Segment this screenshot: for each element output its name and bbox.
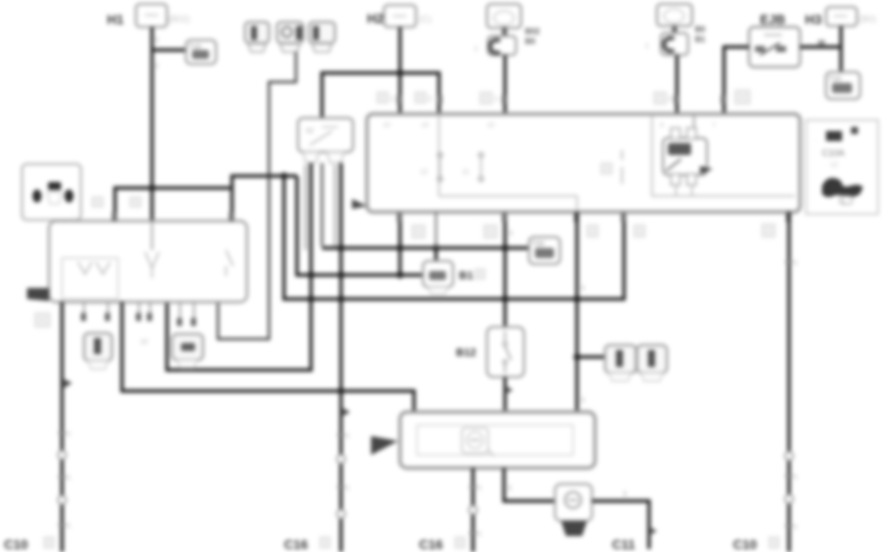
svg-text:(B02): (B02) <box>168 14 190 24</box>
wire relay A2 right pin down to ground C16 <box>337 163 350 552</box>
wire B12 down to pump box A13 <box>505 377 513 412</box>
lamp H3 <box>826 7 857 26</box>
pump motor M <box>555 484 592 536</box>
M1 pointer arrow <box>352 199 367 209</box>
pin marks on M1 bottom edge <box>397 213 791 222</box>
junction box EJB <box>749 27 800 67</box>
svg-text:.: . <box>72 210 74 217</box>
svg-text:1: 1 <box>67 475 71 482</box>
M1 inner zone left <box>439 116 577 212</box>
sensor B02 (brake fluid) <box>474 4 540 55</box>
wire M1 inner feed x440 to connector B1 <box>435 212 437 261</box>
indicator lamp 2 in M1 <box>462 153 483 181</box>
wire A13 to ground C16 <box>469 468 482 552</box>
svg-text:20: 20 <box>383 122 391 129</box>
wire H3 down to connector T2 <box>839 26 842 72</box>
relay A2 (hazard module) <box>298 118 353 163</box>
svg-text:C16: C16 <box>419 537 443 552</box>
wire EJB left to M1 <box>724 47 749 114</box>
wire relay A2 mid pin to bus y248 <box>306 163 530 250</box>
svg-text:H1: H1 <box>107 12 124 27</box>
svg-text:(C): (C) <box>419 14 432 24</box>
svg-text:H3: H3 <box>805 12 822 27</box>
svg-text:19: 19 <box>421 122 429 129</box>
svg-text:C10: C10 <box>733 537 757 552</box>
M1 inner zone right <box>652 116 795 196</box>
H2 connector ref text <box>419 14 432 24</box>
ground label C10 left <box>4 537 54 552</box>
node junction y176 branch <box>281 173 288 180</box>
svg-text:1: 1 <box>794 260 798 267</box>
P pointer arrow <box>27 288 49 301</box>
wire relay A2 left pin down to U-turn <box>167 163 311 370</box>
wire ignition bus upper (y176/y188 to switch P) <box>115 176 297 221</box>
svg-text:12: 12 <box>420 169 428 176</box>
P bottom pin stubs <box>84 302 194 318</box>
svg-text:1: 1 <box>155 37 159 44</box>
svg-text:1: 1 <box>478 485 482 492</box>
fuse F2 <box>277 22 303 52</box>
junction box EJB label <box>760 12 785 27</box>
node B12 label <box>456 347 476 359</box>
node B1 label <box>459 269 485 282</box>
wire relay U1 bottom stubs <box>676 185 692 196</box>
svg-text:1: 1 <box>509 230 513 237</box>
svg-text:1: 1 <box>67 523 71 530</box>
connector B1 <box>423 261 453 294</box>
sensor B03 (right, level) <box>645 4 706 55</box>
svg-text:H2: H2 <box>367 11 384 26</box>
warning lamp cluster 2 <box>637 345 667 381</box>
pin marks on M1 top edge <box>397 95 726 104</box>
connector T1 <box>186 40 216 64</box>
wire sensor B02 down to M1 and B12 <box>505 55 513 327</box>
ground label C11 <box>612 537 635 552</box>
connector label squares above P <box>92 197 141 207</box>
connector label square left of P <box>35 313 50 327</box>
svg-text:11: 11 <box>462 169 469 176</box>
svg-text:1: 1 <box>346 485 350 492</box>
connector label square near EJB <box>735 90 750 104</box>
wire M1 right pin down to ground C10 <box>785 212 798 552</box>
svg-text:1: 1 <box>155 63 159 70</box>
svg-text:B0: B0 <box>525 37 536 46</box>
svg-text:1: 1 <box>346 433 350 440</box>
wire P pin to pump box A13 (bottom rail) <box>122 302 414 412</box>
svg-text:.: . <box>814 135 816 142</box>
lamp H2 label <box>367 11 384 26</box>
ground label C16 mid <box>419 537 465 552</box>
wire P pin to ground C10 <box>58 302 72 552</box>
svg-text:1: 1 <box>478 531 482 538</box>
wire pump to ground C11 <box>592 491 657 549</box>
svg-text:T10: T10 <box>829 76 841 83</box>
wire M1 x577 down to A13 <box>577 212 585 412</box>
node junctions on wire x341 <box>338 245 345 395</box>
svg-text:1: 1 <box>390 96 394 103</box>
svg-text:1: 1 <box>67 431 71 438</box>
svg-text:C10A: C10A <box>822 148 845 158</box>
lamp H1 <box>136 4 167 27</box>
svg-text:52: 52 <box>306 128 314 135</box>
gauge sender inside A13 <box>462 428 494 456</box>
fuse F4 below P <box>84 333 112 369</box>
svg-text:.: . <box>25 210 27 217</box>
wire branch to warning lamps <box>577 355 605 358</box>
wire H1 down to switch P <box>152 27 159 221</box>
wire H1 branch to connector T1 <box>152 48 187 51</box>
M1 mid pin link <box>601 150 622 184</box>
connector T2 <box>826 72 860 99</box>
svg-text:EJB: EJB <box>760 12 785 27</box>
fuel pump unit A13 <box>400 412 595 468</box>
node junction x577 lamp branch <box>574 354 581 361</box>
svg-text:1: 1 <box>794 474 798 481</box>
svg-text:T10: T10 <box>189 44 201 51</box>
svg-text:1: 1 <box>581 397 585 404</box>
warning lamp cluster 1 <box>605 345 636 381</box>
svg-text:1: 1 <box>645 43 649 50</box>
lamp H3 label <box>805 12 822 27</box>
ignition switch B <box>22 164 81 220</box>
svg-text:1: 1 <box>494 96 498 103</box>
pin marks on P top edge <box>112 212 234 221</box>
wire bus y73 <box>322 73 439 118</box>
H3 connector ref text <box>859 14 876 24</box>
P bottom pin tips <box>81 313 196 346</box>
svg-text:T20: T20 <box>532 241 544 248</box>
H1 connector ref text <box>168 14 190 24</box>
wire bus y299 (to cluster M1) <box>284 176 624 299</box>
connector T20 <box>529 237 560 264</box>
connector label squares below M1 <box>412 224 775 238</box>
wire A13 to pump motor <box>504 468 555 501</box>
svg-text:1: 1 <box>794 524 798 531</box>
wire relay U1 right pin feed <box>693 116 695 128</box>
svg-text:B1: B1 <box>459 270 473 282</box>
node junctions bus <box>149 185 581 303</box>
A13 pointer arrow <box>371 436 398 455</box>
wire fuse feed to switch P (via left jog) <box>218 52 296 339</box>
relay U1 inside M1 <box>663 128 713 185</box>
connector T3 below P <box>172 334 203 368</box>
svg-text:B12: B12 <box>456 347 476 359</box>
instrument cluster M1 <box>367 114 800 212</box>
wire EJB right to H3 wire <box>800 40 841 47</box>
svg-text:(B0): (B0) <box>859 14 876 24</box>
svg-text:1: 1 <box>623 491 627 498</box>
svg-text:8: 8 <box>660 122 664 129</box>
P switch element right <box>226 250 233 276</box>
svg-text:B02: B02 <box>525 27 540 36</box>
svg-text:7: 7 <box>712 122 716 129</box>
M1 pin number texts <box>383 122 716 129</box>
ground label C10 right <box>733 537 779 552</box>
fuse F3 <box>309 22 335 52</box>
svg-text:B1: B1 <box>695 35 706 44</box>
svg-text:C10: C10 <box>4 537 28 552</box>
P switch element mid <box>145 221 159 278</box>
connector label squares above M1 <box>377 92 672 104</box>
svg-text:1: 1 <box>841 197 846 206</box>
node junction H2 bus <box>397 70 404 77</box>
wire sensor B03 down to relay in M1 <box>675 55 678 130</box>
svg-text:10: 10 <box>140 339 148 346</box>
wire H2 down through M1 <box>398 27 401 275</box>
wire M1 to B12 x505 already drawn ; sensor switch B12 <box>487 327 524 377</box>
svg-text:15: 15 <box>487 122 495 129</box>
svg-text:10: 10 <box>830 162 838 169</box>
svg-text:2: 2 <box>428 96 432 103</box>
info panel legend box <box>806 120 878 214</box>
P inner sub box <box>62 258 118 299</box>
lamp H2 <box>384 5 416 27</box>
svg-text:B0: B0 <box>695 25 706 34</box>
svg-text:1: 1 <box>508 485 512 492</box>
ground label C16 mid-left <box>284 537 330 552</box>
svg-text:C16: C16 <box>284 537 308 552</box>
svg-text:2: 2 <box>668 96 672 103</box>
light switch assembly P <box>49 221 247 302</box>
svg-text:1: 1 <box>581 285 585 292</box>
wire bus y275 (to connector B1) <box>297 176 423 275</box>
lamp H1 label <box>107 12 124 27</box>
svg-text:C11: C11 <box>612 537 635 552</box>
fuse F1 <box>245 22 269 52</box>
indicator lamp 1 in M1 <box>420 153 442 181</box>
svg-text:1: 1 <box>474 46 478 53</box>
